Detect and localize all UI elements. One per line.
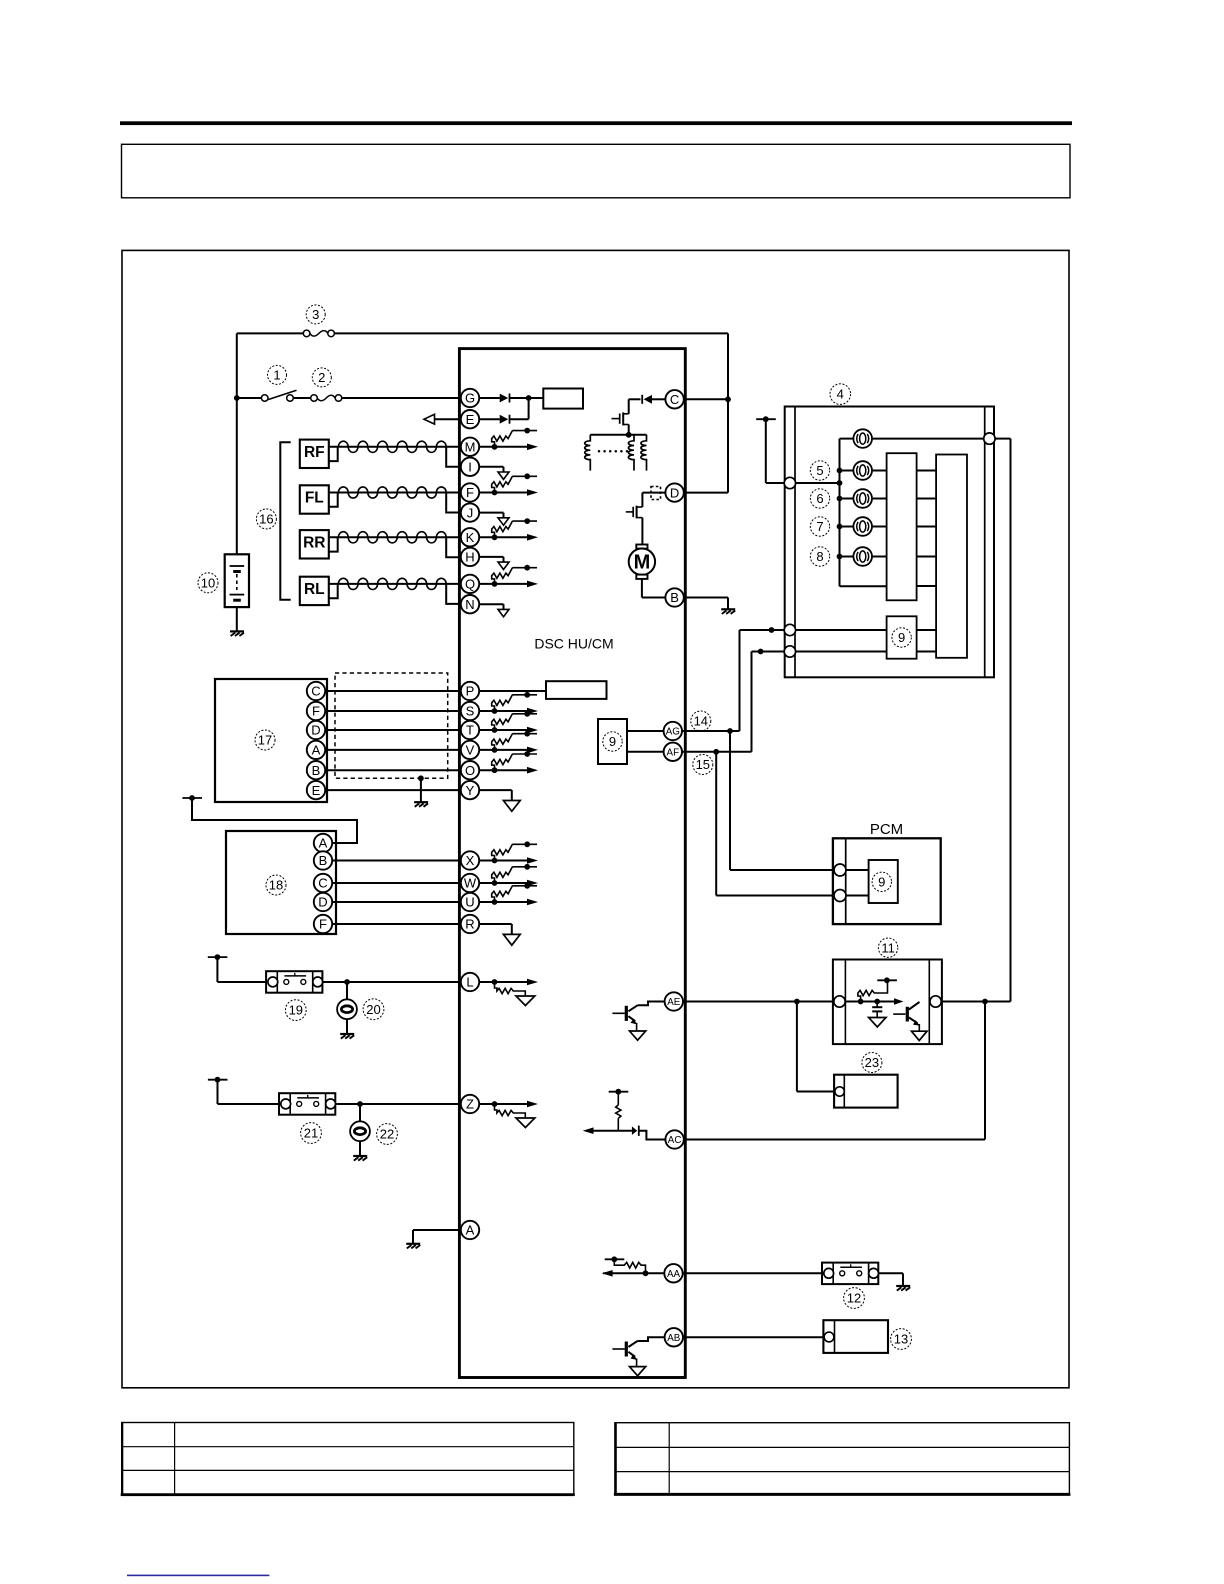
stub AA [605, 1256, 625, 1262]
svg-text:Q: Q [465, 577, 475, 592]
ground lamp 20 [340, 1034, 354, 1039]
svg-text:Z: Z [466, 1097, 474, 1112]
box 23 [834, 1075, 898, 1108]
svg-text:E: E [312, 783, 321, 798]
junction dot rail 5 [837, 468, 843, 474]
input symbol U [479, 883, 538, 905]
power stub 21 [208, 1077, 228, 1083]
sensor RL 16d [300, 577, 329, 605]
svg-text:13: 13 [894, 1332, 908, 1347]
svg-text:RR: RR [303, 535, 325, 552]
box11 capacitor [869, 1002, 886, 1028]
ground B [721, 609, 735, 614]
wire to switch 1 [237, 397, 262, 399]
wire 18D-U [332, 901, 461, 903]
bottom-left table [121, 1423, 575, 1496]
wire A to ground [413, 1230, 461, 1244]
terminal Y [461, 781, 479, 799]
svg-text:B: B [312, 763, 321, 778]
svg-text:D: D [670, 485, 679, 500]
relay box 4 [785, 407, 994, 678]
junction dot AG-PCM [727, 728, 733, 734]
pump motor M [629, 545, 655, 579]
wire C external [684, 398, 728, 400]
sensor RR 16c [300, 530, 329, 558]
wire box4 out to AE net [995, 439, 1010, 1002]
svg-text:PCM: PCM [870, 821, 903, 838]
mosfet Q2 [626, 506, 643, 519]
wire lamp22 ground [359, 1141, 361, 1156]
wire AE branch to 23 [797, 1002, 835, 1092]
terminal G [461, 389, 479, 407]
svg-text:9: 9 [609, 734, 616, 749]
indicator lamp 5 [853, 461, 872, 480]
label 4 [830, 384, 851, 405]
resistor AC [616, 1092, 621, 1131]
internal box after G [543, 389, 583, 409]
svg-text:P: P [466, 684, 475, 699]
svg-text:AF: AF [667, 747, 680, 758]
svg-text:22: 22 [380, 1127, 394, 1142]
svg-text:F: F [319, 917, 327, 932]
label 9 relay [892, 628, 911, 647]
wire 17A-V [325, 749, 461, 751]
wire to lamp 22 [359, 1104, 361, 1121]
ground A [406, 1244, 420, 1249]
wire motor to B [642, 579, 666, 598]
junction dot battery/switch node [234, 395, 240, 401]
svg-text:9: 9 [898, 630, 905, 645]
label DSC HU/CM [534, 636, 613, 652]
indicator lamp 7 [853, 517, 872, 536]
fuse F3 [303, 330, 334, 337]
label 3 [306, 305, 325, 324]
svg-text:F: F [312, 704, 320, 719]
label 7 [810, 517, 829, 536]
terminal AG [664, 722, 682, 740]
label 14 [691, 711, 711, 731]
wire pcm1 to box9 [846, 869, 869, 871]
wire AG to box4 [682, 630, 784, 731]
label 23 [862, 1053, 882, 1073]
svg-text:R: R [465, 917, 474, 932]
wire P internal [479, 690, 546, 692]
label 17 [255, 730, 275, 750]
svg-text:B: B [319, 853, 328, 868]
svg-text:2: 2 [318, 370, 325, 385]
ground battery [230, 631, 244, 636]
terminal V [461, 741, 479, 759]
svg-text:N: N [465, 597, 474, 612]
svg-text:18: 18 [269, 878, 283, 893]
ground arrow R [479, 924, 520, 945]
label 6 [810, 489, 829, 508]
junction dot 11a [858, 999, 864, 1005]
inner box 4-2 [936, 455, 967, 658]
junction dot lamp 20 [344, 979, 350, 985]
input symbol Q [479, 565, 538, 587]
svg-text:8: 8 [816, 549, 823, 564]
footer link line [127, 1575, 269, 1577]
svg-text:O: O [465, 763, 475, 778]
label 22 [377, 1124, 398, 1145]
label 18 [266, 875, 286, 895]
transformer core dots [598, 450, 629, 453]
terminal 17-B [307, 761, 325, 779]
svg-text:20: 20 [366, 1002, 380, 1017]
wire AE after box 11 [941, 1001, 1010, 1003]
top header box (empty) [122, 144, 1071, 198]
lamp bus rail [840, 439, 887, 587]
diagram border [122, 250, 1069, 1387]
terminal R [461, 915, 479, 933]
indicator lamp top [853, 429, 872, 448]
wire 17F-S [325, 710, 461, 712]
wire 18C-W [332, 882, 461, 884]
wire D internal [642, 492, 665, 494]
input symbol L [479, 979, 538, 1006]
svg-text:RF: RF [304, 444, 325, 461]
terminal C [665, 390, 683, 408]
label 9 pcm [872, 872, 891, 891]
svg-text:X: X [466, 853, 475, 868]
wire lamp7 leads [840, 526, 887, 528]
wire shield to ground [420, 778, 422, 802]
transformer winding B [628, 435, 634, 471]
wire D to FET2 [641, 493, 643, 507]
label 1 [268, 365, 287, 384]
wires box9-box2 [917, 630, 937, 652]
box11 pullup resistor [858, 977, 897, 1001]
junction dot box4 low1 wire [769, 627, 775, 633]
input symbol F [479, 473, 538, 495]
diode D-C [642, 395, 652, 404]
terminal J [461, 503, 479, 521]
wire switch19 to L [322, 981, 460, 983]
input symbol K [479, 518, 538, 540]
junction dot shield drain [418, 775, 424, 781]
junction dot AE-23 [794, 999, 800, 1005]
terminal 13 [824, 1332, 834, 1342]
ground arrow N [479, 604, 509, 617]
ground lamp 22 [353, 1156, 367, 1161]
junction dot C node [725, 396, 731, 402]
terminal box4 low2 [784, 646, 795, 657]
svg-text:C: C [670, 392, 679, 407]
terminal 18-F [314, 915, 332, 933]
svg-text:3: 3 [312, 307, 319, 322]
svg-text:E: E [466, 412, 475, 427]
svg-text:K: K [466, 530, 475, 545]
input symbol Z [479, 1101, 538, 1128]
terminal T [461, 721, 479, 739]
svg-text:6: 6 [816, 491, 823, 506]
ground arrow J [479, 513, 509, 526]
diode D-G [500, 394, 510, 403]
terminal H [461, 548, 479, 566]
label 10 [198, 573, 218, 593]
junction dot box4 low2 wire [758, 649, 764, 655]
wire fuse3 left segment [237, 332, 304, 334]
terminal Z [461, 1095, 479, 1113]
svg-text:A: A [319, 836, 328, 851]
svg-text:AE: AE [667, 997, 681, 1008]
wire 9box to AG [627, 730, 664, 732]
wire C internal [629, 398, 666, 400]
ground arrow H [479, 557, 509, 570]
wire switch12 ground [878, 1273, 903, 1286]
wire to lamp 20 [346, 982, 348, 999]
svg-text:DSC HU/CM: DSC HU/CM [534, 636, 613, 652]
terminal 11 right [930, 996, 941, 1007]
terminal 11 left [834, 996, 845, 1007]
svg-text:RL: RL [304, 581, 325, 598]
input symbol V [479, 731, 538, 753]
power stub 19 [208, 954, 228, 960]
terminal U [461, 893, 479, 911]
label 9 internal [603, 732, 622, 751]
label 2 [312, 368, 331, 387]
ground arrow Y [479, 790, 520, 811]
svg-text:9: 9 [878, 874, 885, 889]
terminal 17-E [307, 781, 325, 799]
svg-text:D: D [311, 723, 320, 738]
ground switch 12 [896, 1286, 910, 1291]
terminal L [461, 973, 479, 991]
svg-text:1: 1 [273, 367, 280, 382]
terminal box4 low1 [784, 624, 795, 635]
svg-text:H: H [465, 550, 474, 565]
terminal 18-D [314, 893, 332, 911]
svg-text:12: 12 [847, 1291, 861, 1306]
label 21 [301, 1123, 322, 1144]
wire 17C-P [325, 690, 461, 692]
warning lamp 22 [350, 1121, 370, 1141]
svg-text:A: A [312, 743, 321, 758]
terminal box4 feed [784, 477, 795, 488]
svg-text:Y: Y [466, 783, 475, 798]
can box 9 internal [598, 719, 627, 764]
arrow E output [424, 414, 435, 424]
wire fuse3 to C/D node [334, 332, 728, 334]
terminal I [461, 458, 479, 476]
wire lamp6 leads [840, 498, 887, 500]
label 5 [810, 461, 829, 480]
wire AB external [683, 1336, 824, 1338]
terminal A [461, 1221, 479, 1239]
svg-text:AC: AC [668, 1135, 682, 1146]
svg-text:21: 21 [304, 1126, 318, 1141]
svg-text:W: W [464, 876, 477, 891]
terminal Q [461, 575, 479, 593]
wire lamp20 ground [346, 1019, 348, 1034]
svg-text:U: U [465, 895, 474, 910]
svg-text:F: F [466, 485, 474, 500]
wire stub to switch 21 [218, 1080, 280, 1104]
transistor Q-AB [612, 1337, 664, 1376]
input symbol M [479, 428, 538, 450]
svg-text:14: 14 [694, 714, 708, 729]
wire switch to fuse 2 [293, 397, 311, 399]
switch 21 [279, 1093, 336, 1115]
svg-text:D: D [318, 895, 327, 910]
terminal S [461, 702, 479, 720]
label 16 [256, 509, 276, 529]
indicator lamp 8 [853, 547, 872, 566]
transformer top wire [590, 434, 646, 436]
junction dot G/E diodes [526, 395, 532, 401]
box 13 [823, 1320, 888, 1353]
wire G internal [479, 397, 543, 399]
terminal PCM-1 [834, 864, 846, 876]
terminal P [461, 682, 479, 700]
battery B+ 10 [225, 554, 249, 607]
terminal 18-B [314, 851, 332, 869]
twisted pair RF [329, 441, 461, 467]
wire AE to box 11 [683, 1001, 834, 1003]
svg-text:7: 7 [816, 519, 823, 534]
terminal 17-C [307, 682, 325, 700]
wire lamp8 leads [840, 556, 887, 558]
sensor FL 16b [300, 485, 329, 513]
terminal N [461, 595, 479, 613]
twisted pair RR [329, 532, 461, 558]
svg-text:V: V [466, 743, 475, 758]
switch 12 [822, 1263, 878, 1285]
wire lamp top leads [840, 438, 985, 440]
switch 19 [266, 971, 323, 993]
svg-text:10: 10 [201, 575, 215, 590]
power stub AC [609, 1089, 629, 1095]
terminal O [461, 761, 479, 779]
PCM box [833, 838, 941, 924]
power stub for 18 [182, 795, 202, 801]
terminal PCM-2 [834, 890, 846, 902]
svg-text:17: 17 [258, 733, 272, 748]
wire node to D [684, 492, 728, 494]
wire switch21 to Z [335, 1103, 460, 1105]
svg-text:19: 19 [289, 1003, 303, 1018]
terminal 17-A [307, 741, 325, 759]
wire 18F-R [332, 923, 461, 925]
svg-text:I: I [468, 459, 472, 474]
wire AG branch to PCM [730, 731, 834, 870]
terminal X [461, 851, 479, 869]
pcm inner box 9 [869, 860, 898, 903]
bracket 16 [280, 442, 290, 600]
terminal D [665, 483, 683, 501]
box11 transistor [893, 1002, 927, 1041]
svg-text:A: A [466, 1223, 475, 1238]
input symbol O [479, 751, 538, 773]
wire battery to ground [236, 607, 238, 631]
junction dot transformer tap [626, 432, 632, 438]
inner box 9 in relay box [887, 616, 917, 658]
svg-text:L: L [466, 975, 473, 990]
wire B to ground [684, 598, 728, 610]
switch SW1 [261, 390, 296, 401]
twisted pair FL [329, 487, 461, 513]
sensor box 17 [215, 679, 327, 802]
svg-text:23: 23 [865, 1055, 879, 1070]
wire 18B-X [332, 860, 461, 862]
junction dot lamp 22 [357, 1101, 363, 1107]
junction dot rail 6 [837, 496, 843, 502]
svg-text:AA: AA [667, 1269, 681, 1280]
label 13 [891, 1329, 912, 1350]
wire FET1 source [628, 425, 630, 435]
sensor box 18 [226, 831, 336, 934]
label PCM [870, 821, 903, 838]
svg-text:J: J [467, 505, 474, 520]
data link box 11 [833, 960, 942, 1045]
wire low2 inside [796, 651, 887, 653]
wire AF to box4 [682, 652, 784, 752]
svg-text:B: B [670, 590, 679, 605]
svg-text:4: 4 [837, 387, 844, 402]
brake warning lamp 20 [337, 999, 357, 1019]
terminal 18-C [314, 874, 332, 892]
svg-text:M: M [634, 552, 651, 574]
wire 17E-Y [325, 789, 461, 791]
box11 internal line [845, 998, 903, 1005]
terminal AE [665, 992, 683, 1010]
DSC HU/CM module box [459, 349, 685, 1378]
junction dot rail feed [837, 480, 843, 486]
terminal 23 [835, 1087, 844, 1096]
junction dot rail 8 [837, 554, 843, 560]
inner box 4-1 [887, 453, 917, 600]
svg-text:AB: AB [667, 1333, 681, 1344]
svg-text:M: M [465, 439, 476, 454]
bottom-right table [614, 1423, 1071, 1495]
junction dot AE-AC [982, 999, 988, 1005]
terminal M [461, 438, 479, 456]
terminal AB [665, 1328, 683, 1346]
wire feed inside box4 [796, 482, 840, 484]
junction dot rail 7 [837, 524, 843, 530]
wire E internal [479, 398, 528, 419]
wire 17D-T [325, 729, 461, 731]
terminal B [665, 588, 683, 606]
indicator lamp 6 [853, 489, 872, 508]
wire FET2 to motor [641, 518, 643, 545]
internal box after P [546, 681, 607, 699]
input symbol W [479, 864, 538, 886]
svg-text:S: S [466, 704, 475, 719]
wire 17B-O [325, 769, 461, 771]
svg-text:11: 11 [881, 940, 895, 955]
junction dot 11b [874, 999, 880, 1005]
terminal E [461, 410, 479, 428]
terminal 17-D [307, 721, 325, 739]
wire AA external [683, 1272, 822, 1274]
wire stub to box4 feed [766, 419, 784, 483]
shield dashed box [335, 673, 448, 778]
terminal AF [664, 743, 682, 761]
wire fuse2 to G [342, 397, 461, 399]
svg-text:FL: FL [305, 490, 324, 507]
svg-text:5: 5 [816, 463, 823, 478]
wire AC external [684, 1002, 985, 1140]
label 15 [693, 755, 713, 775]
wire lamp5 leads [840, 470, 887, 472]
terminal K [461, 528, 479, 546]
wire C/D node vertical [727, 333, 729, 492]
wire AA internal arrow [602, 1270, 665, 1277]
input symbol S [479, 692, 538, 714]
transformer winding C [641, 435, 647, 471]
